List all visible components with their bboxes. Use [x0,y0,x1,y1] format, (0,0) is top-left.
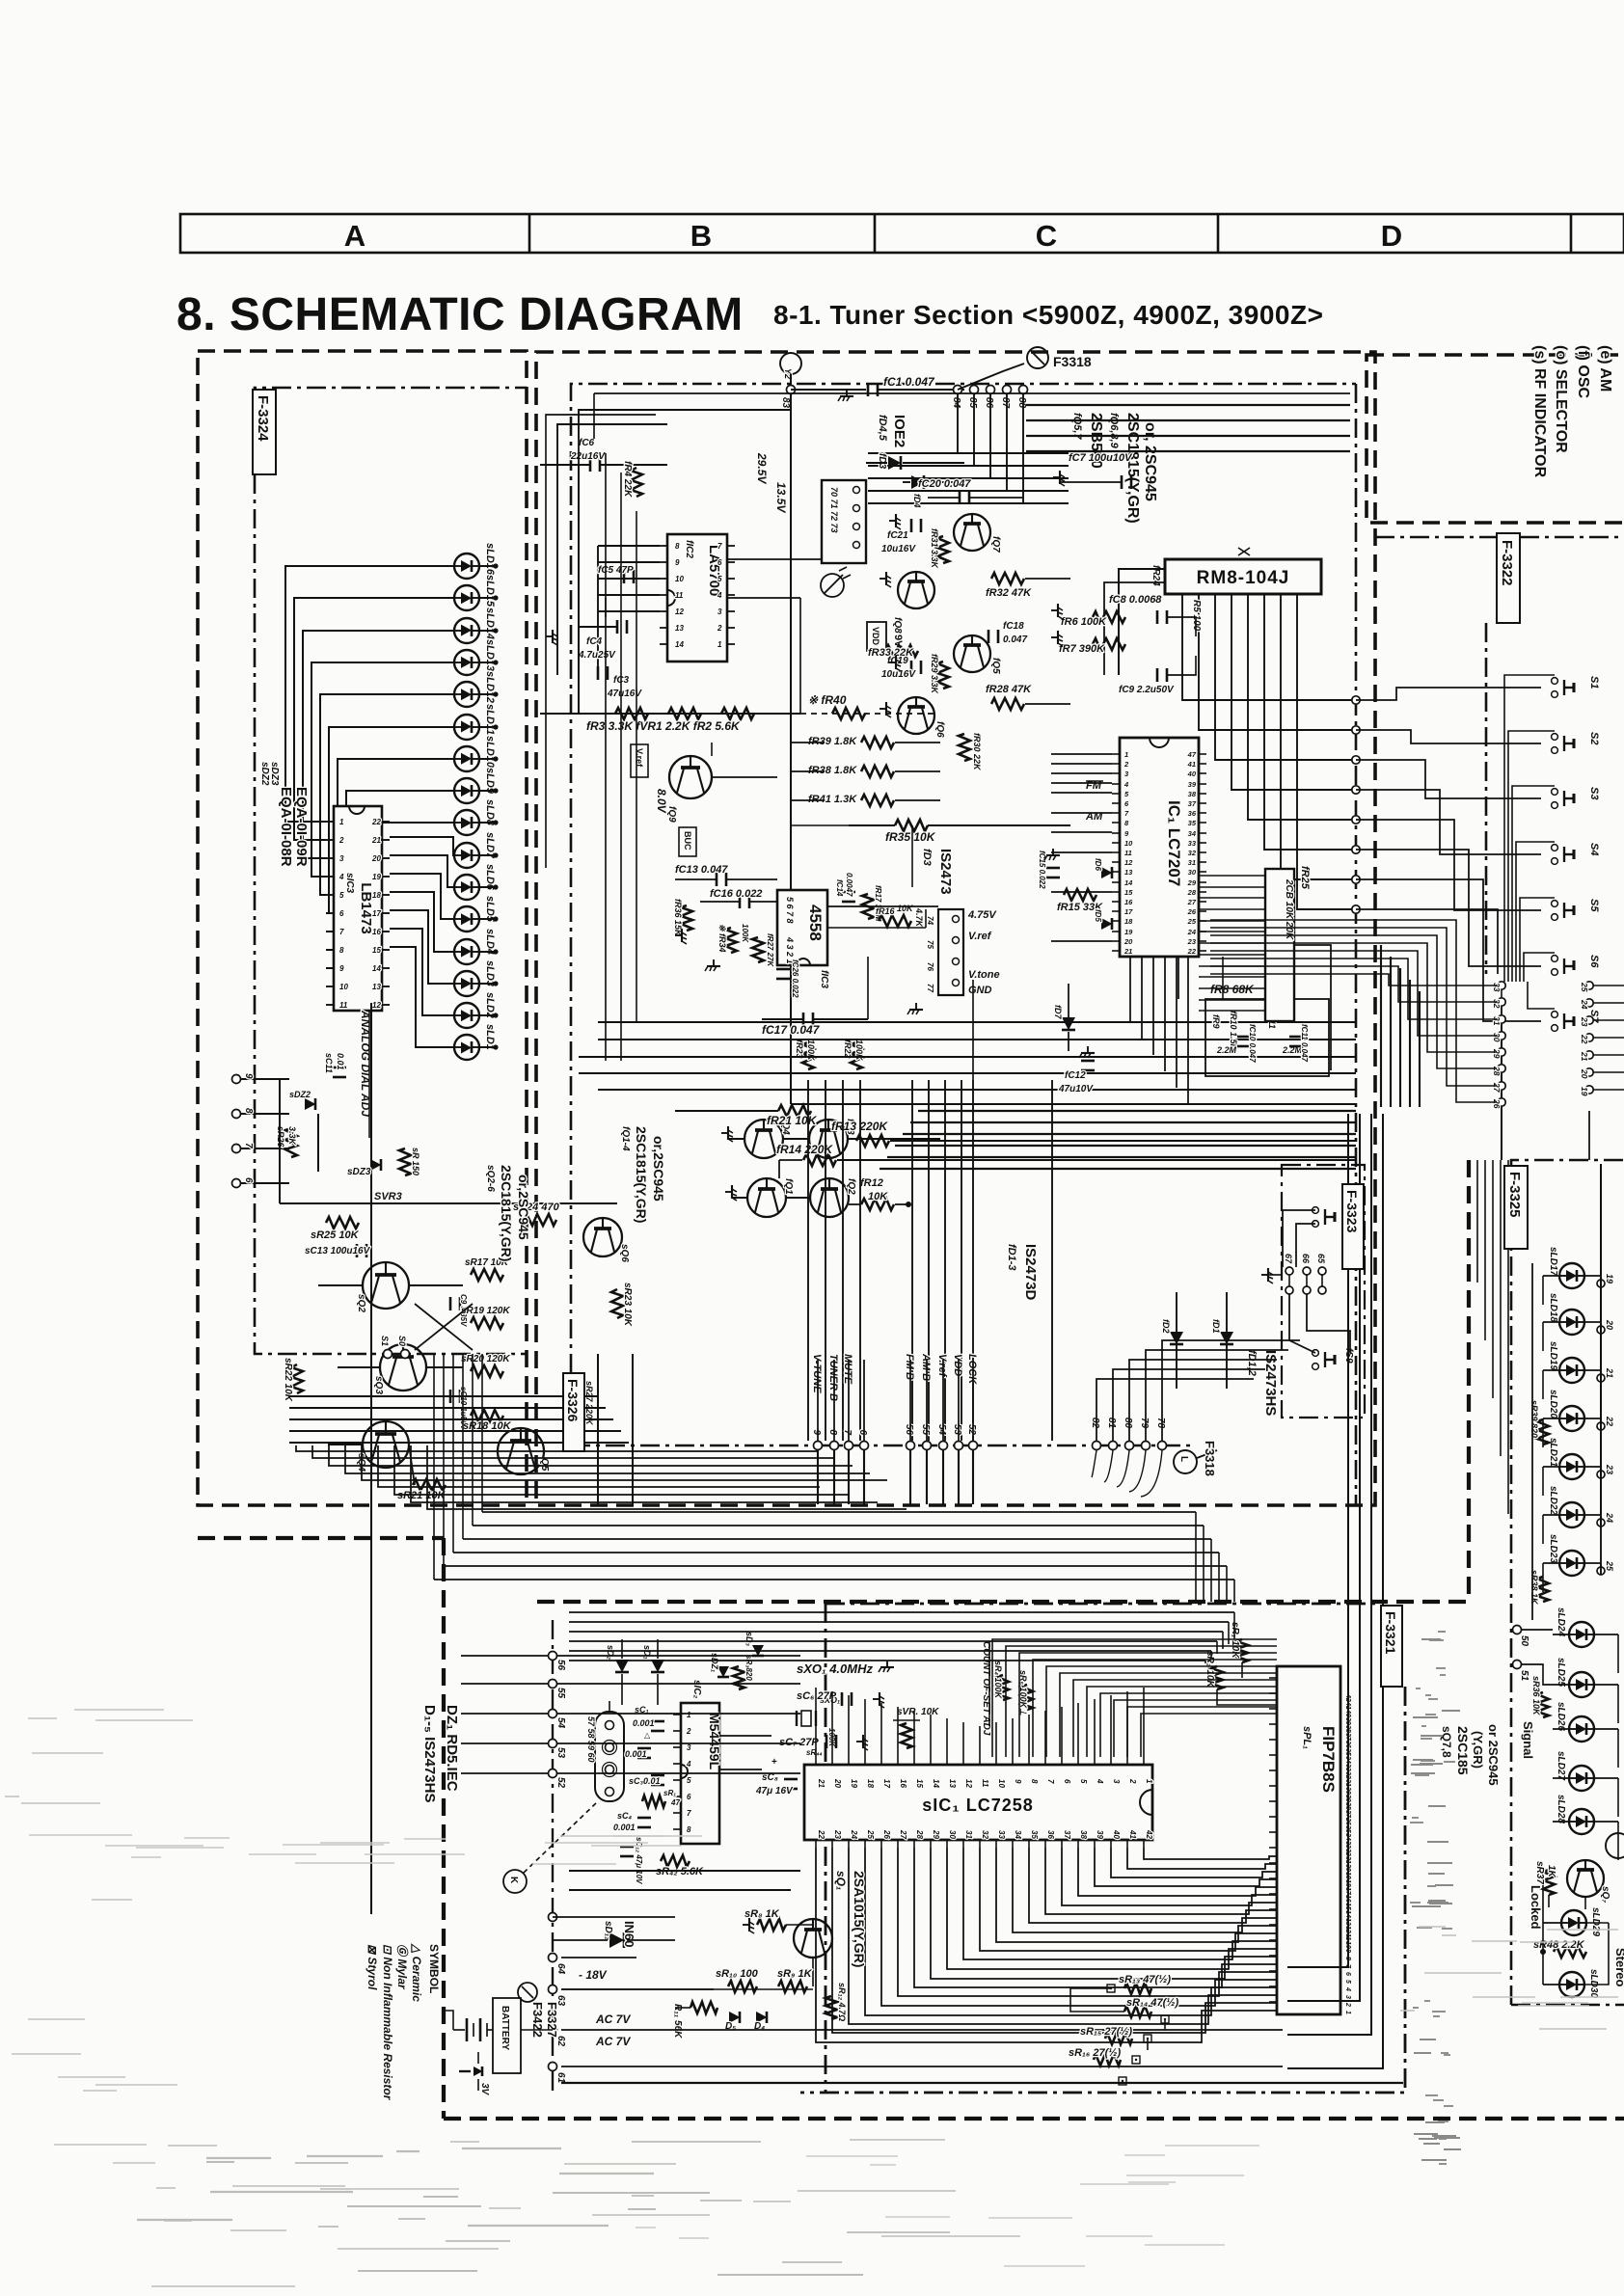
node 83 [780,386,796,409]
wire [815,1756,817,1758]
wire [848,1756,850,1758]
svg-text:54: 54 [936,1424,947,1436]
LED sLD8 [454,810,479,835]
pin [996,1757,1006,1788]
wire [1199,942,1265,944]
svg-text:29: 29 [1187,878,1197,887]
node [549,1913,557,1922]
svg-text:F3327: F3327 [545,2002,559,2038]
LED sLD7 [454,843,479,868]
svg-text:or,2SC945: or,2SC945 [651,1136,666,1202]
wire staircase [1045,1848,1277,1914]
svg-text:IC₁ LC7207: IC₁ LC7207 [1165,800,1183,886]
pin [832,1829,842,1848]
svg-text:50: 50 [1519,1635,1529,1647]
ground [743,1918,754,1933]
wire [481,1354,483,1512]
svg-text:26: 26 [882,1829,891,1839]
wire [598,546,660,611]
wire [1492,1160,1494,1398]
wire [1356,850,1541,966]
svg-text:25: 25 [1580,982,1589,992]
svg-text:12: 12 [372,1001,381,1010]
wire [962,1756,964,1758]
svg-text:GND: GND [968,985,992,996]
svg-text:29: 29 [932,1829,940,1839]
wire staircase [947,1848,1277,1969]
diode fD7 [1053,984,1075,1051]
wire [909,1360,911,1441]
svg-text:7: 7 [717,542,722,551]
ground [856,1661,894,1750]
wire [946,1718,948,1757]
wire [593,393,595,439]
pin [1013,1757,1022,1784]
label BUC boxed [679,827,696,856]
connector pin 56 [904,1424,915,1450]
wire [1589,1003,1624,1007]
diode sD1 [642,1639,664,1705]
label fQ6,8,9 2SC1815 [1108,413,1158,524]
svg-text:4.7K: 4.7K [914,907,924,929]
wire [1152,957,1154,1055]
wire [318,1285,380,1445]
label GND [968,985,992,996]
wire [1051,763,1112,765]
pin [1344,1794,1351,1802]
wire [1233,1612,1235,1639]
pin [1344,1779,1351,1787]
pin [1344,1903,1351,1910]
pin [1344,1980,1351,1984]
svg-text:13: 13 [1124,868,1133,877]
ground [880,702,891,717]
pin [1187,750,1206,759]
wire [1528,982,1555,1009]
board outline bottom left segment [198,1536,444,1540]
pin [1269,1816,1277,1818]
label sLD1 [484,1024,496,1050]
wire loop [1104,1450,1113,1482]
wire [1501,1023,1502,1160]
pin [1269,1955,1277,1957]
wire bus [880,1168,1356,1170]
wire [557,1713,800,1715]
svg-text:10: 10 [1124,839,1133,848]
wire [1419,991,1421,1107]
pin [931,1829,940,1848]
wire [390,910,454,984]
wire [462,1354,464,1539]
wire [1297,594,1356,909]
capacitor fC6 22u16V [540,438,667,472]
svg-text:47: 47 [670,1798,680,1807]
wire [727,598,800,714]
transistor fQ5 [954,635,1001,674]
wire [390,837,454,855]
wire [1168,617,1196,675]
wire [1356,730,1541,743]
svg-text:28: 28 [1492,1066,1502,1076]
wire [1051,851,1112,853]
board outline tuner main [536,352,1375,1505]
resistor sR36 10K [1531,1676,1549,1717]
svg-text:S5: S5 [1588,899,1600,912]
connector pin 31 [1492,1015,1505,1026]
capacitor sC1 0.001 [633,1705,664,1740]
svg-text:6: 6 [243,1177,254,1183]
label R5 100 [1191,600,1202,632]
svg-text:fD1,2: fD1,2 [1246,1350,1258,1376]
wire [280,1202,617,1204]
pin [1188,839,1206,848]
wire [731,1197,810,1199]
svg-text:18: 18 [372,891,381,900]
wire [1182,594,1356,700]
wire [1051,772,1112,774]
pin [1269,1924,1277,1926]
connector pin 22 [1597,1416,1614,1430]
svg-text:75: 75 [926,940,934,949]
svg-text:24: 24 [1605,1512,1614,1523]
wire [842,1080,844,1441]
label sLD21 [1548,1438,1558,1467]
resistor sR3 820 [733,1655,753,1689]
transistor fQ8 [892,572,934,634]
label sLD24 [1556,1607,1566,1636]
wire [1210,974,1497,986]
label AC 7V [595,2035,631,2048]
svg-text:fR31 3.3K: fR31 3.3K [930,528,939,570]
label F-3325 [1504,1166,1528,1249]
connector pin 24 [1580,999,1593,1010]
wire [326,823,454,968]
capacitor fC19 [881,656,921,680]
resistor fR36 15K [673,899,692,937]
svg-text:fQ2: fQ2 [846,1178,856,1195]
label sLD19 [1548,1341,1558,1370]
pin [1344,1972,1351,1976]
svg-text:fR9: fR9 [1211,1014,1221,1029]
svg-text:29.5V: 29.5V [755,452,769,484]
wire [479,981,499,986]
svg-text:sR48 2.2K: sR48 2.2K [1533,1939,1585,1951]
capacitor fC17 0.047 [762,1013,868,1037]
pin [963,1830,973,1848]
wire [913,1711,915,1757]
wire [1600,1164,1602,1430]
label FM [1086,780,1103,792]
pin [1344,1872,1351,1879]
pin [1062,1830,1071,1848]
wire [1600,1164,1602,1287]
wire bus [569,1660,1205,1661]
svg-text:8. SCHEMATIC DIAGRAM: 8. SCHEMATIC DIAGRAM [176,289,744,340]
svg-text:fD5: fD5 [1094,909,1102,922]
pin [1112,809,1129,818]
svg-text:S6: S6 [1588,955,1600,968]
pin [1112,839,1133,848]
svg-text:fC20 0.047: fC20 0.047 [918,478,971,490]
label sLD11 [484,704,496,735]
pin [816,1757,826,1788]
variable resistor sVR1 10K [893,1707,939,1748]
connector pin 67 [1284,1254,1293,1294]
pin [372,891,390,900]
svg-text:10K: 10K [868,1191,888,1202]
pin [1269,1739,1277,1741]
pin [1187,907,1206,916]
wire [1210,943,1497,1052]
svg-text:20: 20 [1123,937,1133,946]
resistor network RM8-104J [1165,559,1321,594]
svg-text:fC13 0.047: fC13 0.047 [675,864,728,876]
wire [1096,1379,1254,1441]
svg-text:sR22 10K: sR22 10K [283,1358,293,1402]
svg-text:sR23 10K: sR23 10K [622,1283,633,1327]
wire staircase [849,1848,1277,2024]
resistor sR19 120K [461,1306,510,1329]
wire staircase [816,1848,1277,2042]
wire [390,855,454,887]
svg-text:F-3324: F-3324 [255,395,271,442]
wire [863,1360,865,1441]
pin [881,1757,891,1788]
svg-text:4.7u25V: 4.7u25V [578,650,616,661]
wire [1199,886,1265,888]
label S2 [1588,732,1600,744]
wire [1584,1923,1609,1985]
scan noise [5,1632,1618,2286]
wire [1549,1895,1585,1909]
capacitor fC4 4.7u25V [578,620,627,661]
svg-text:sDZ3: sDZ3 [347,1167,371,1177]
svg-text:14: 14 [372,964,381,973]
wire bus [463,1538,1211,1540]
wire bus [910,1121,1356,1123]
svg-text:28: 28 [915,1829,924,1839]
pin [1344,1840,1351,1849]
wire [1210,935,1497,1068]
svg-text:sIC3: sIC3 [344,873,355,894]
diode fD3 [866,453,964,470]
capacitor sC6 27P [797,1690,852,1706]
switch S3 [1552,789,1574,809]
resistor sR14 47(1/2) [1124,1997,1178,2023]
transistor fQ3 [809,1119,855,1158]
wire [1589,1090,1624,1094]
wire [553,1916,675,1918]
wire [557,1655,800,1657]
connector pin 6 [232,1177,290,1188]
wire [1543,1563,1559,1592]
header label A [344,219,365,253]
pin [673,1760,691,1769]
svg-text:fD6: fD6 [1094,858,1102,871]
wire cross couple [415,1304,473,1350]
svg-text:VDD: VDD [871,627,880,646]
capacitor fC9 2.2u50V [1119,668,1175,695]
pin [1078,1757,1088,1784]
wire [1553,1728,1569,1730]
wire staircase [881,1848,1277,2006]
wire [1501,1006,1502,1160]
svg-text:18: 18 [1124,917,1133,926]
svg-text:+: + [771,1757,777,1768]
svg-text:sLD14: sLD14 [484,608,496,639]
wire arc to F3318 [958,364,1024,390]
svg-text:C: C [1036,219,1057,253]
pin [914,1829,924,1848]
svg-text:36: 36 [1046,1830,1055,1839]
wire [557,424,667,675]
wire [1524,953,1555,982]
svg-text:32: 32 [981,1830,989,1839]
pin [1112,898,1133,906]
label S7 [1588,1010,1600,1023]
wire bus [362,1445,887,1480]
wire [812,1958,814,1986]
pin [372,873,390,881]
terminal F3318 top [1027,347,1092,369]
label sLD6 [484,864,496,891]
label Signal [1521,1721,1535,1759]
pin [1269,1939,1277,1941]
svg-text:37: 37 [1188,799,1197,808]
svg-text:23: 23 [833,1829,842,1839]
svg-text:27: 27 [1187,898,1197,906]
wire [712,743,777,777]
svg-text:DZ₁ RD5.IEC: DZ₁ RD5.IEC [444,1705,460,1792]
svg-text:13: 13 [372,983,381,991]
pin [1344,1764,1351,1771]
svg-text:7: 7 [842,1429,853,1435]
resistor sR12 4.7 [826,1983,847,2021]
wire bus [579,1056,1356,1058]
svg-text:8: 8 [243,1108,254,1114]
svg-text:fR7 390K: fR7 390K [1059,643,1105,655]
pin [1344,1855,1351,1864]
capacitor fC1 0.047 [868,375,964,396]
wire [390,892,454,952]
svg-text:52: 52 [966,1424,977,1436]
wire [1129,957,1131,1022]
wire [1061,1707,1063,1757]
LED sLD5 [454,906,479,932]
svg-text:6: 6 [1063,1779,1071,1784]
label sLD3 [484,960,496,986]
display sPL1 FIP7B8S [1277,1666,1340,2014]
wire [807,1080,809,1441]
svg-text:2: 2 [686,1727,691,1736]
svg-text:1: 1 [717,640,722,649]
wire [1589,986,1624,989]
wire [825,1080,826,1441]
svg-text:sD₃: sD₃ [744,1632,754,1647]
svg-text:0.001: 0.001 [613,1823,636,1832]
label BATTERY [493,1998,521,2073]
label D1-5 IS2473HS [421,1705,438,1802]
wire [1476,1160,1478,1283]
svg-text:33: 33 [1188,839,1197,848]
svg-text:sQ2: sQ2 [356,1294,366,1312]
svg-text:or,2SC945: or,2SC945 [516,1175,531,1240]
wire [1141,957,1143,1039]
capacitor sC8 47u16V [755,1757,798,1796]
pin [1127,1757,1137,1784]
svg-text:sR 150: sR 150 [411,1148,420,1175]
svg-text:4558: 4558 [806,905,825,941]
wire [1281,594,1356,879]
label S4 [1588,843,1600,855]
wire [1594,1634,1618,1673]
svg-text:38: 38 [1079,1830,1088,1839]
wire [1543,1276,1559,1305]
svg-text:fQ6: fQ6 [934,721,945,738]
wire bus [289,1418,613,1420]
resistor fR4 22K [622,461,642,498]
label sQ7,8 2SC185 [1440,1724,1501,1786]
wire [1543,1370,1559,1399]
label sLD26 [1556,1702,1566,1731]
svg-text:53: 53 [555,1747,566,1759]
svg-text:F-3322: F-3322 [1499,540,1515,586]
svg-text:M54459L: M54459L [707,1713,722,1770]
wire [390,929,454,1015]
svg-text:F3422: F3422 [530,2002,545,2038]
resistor fR12 10K [849,1177,911,1210]
pin [1095,1757,1104,1784]
svg-text:5 6 7 8: 5 6 7 8 [785,897,795,924]
terminal F3318 L [1174,1441,1217,1476]
svg-text:9: 9 [243,1073,254,1079]
wire [1484,1160,1486,1340]
pin [1344,1717,1351,1725]
svg-text:4: 4 [1096,1778,1104,1784]
diode sD12 IN60 [553,1921,675,1948]
resistor fR33 22K [868,645,918,659]
wire [279,1079,281,1203]
label sLD8 [484,799,496,826]
wire [561,1958,813,1989]
resistor row fR3 fVR1 fR2 [586,708,754,733]
svg-text:Stereo: Stereo [1613,1948,1624,1987]
pin [673,1727,691,1736]
connector pin 64 [549,1954,567,1975]
wire [972,980,974,1080]
connector pin 53 [952,1424,963,1450]
svg-text:sLD28: sLD28 [1556,1795,1566,1823]
svg-text:fC7 100u10V: fC7 100u10V [1069,452,1133,464]
label F-3322 [1375,533,1624,974]
svg-text:2: 2 [338,836,344,845]
svg-text:6: 6 [339,909,344,918]
IC fIC2 LA5700 [667,534,727,662]
LED sLD30 [1559,1969,1599,1998]
pin [717,608,735,616]
wire [1501,1040,1502,1160]
wire [461,1772,548,1774]
wire [946,1756,948,1758]
label -18V [579,1968,608,1982]
wire loop [1141,1450,1162,1497]
terminal K [503,1801,598,1893]
svg-text:fC12: fC12 [1065,1070,1086,1081]
pin [673,1776,691,1785]
wire [1584,1467,1601,1471]
svg-text:sR₂ 10K: sR₂ 10K [1204,1651,1215,1688]
wire [863,1450,865,1504]
